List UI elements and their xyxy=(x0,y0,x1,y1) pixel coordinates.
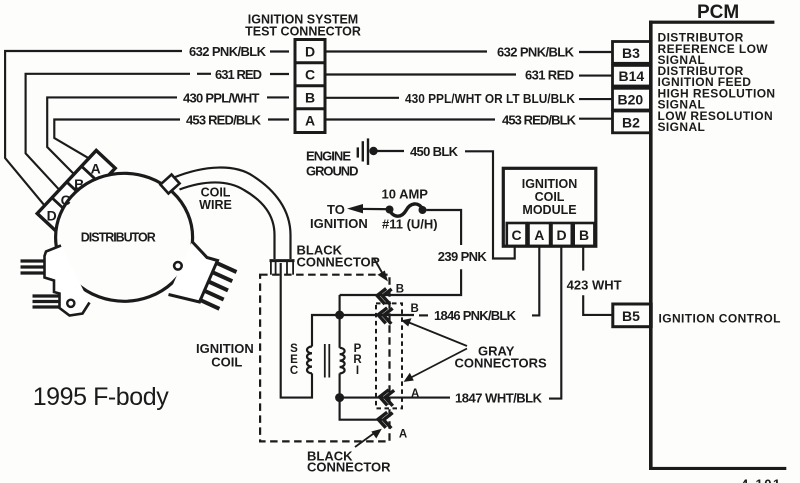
svg-text:B14: B14 xyxy=(619,68,645,84)
test connector title xyxy=(245,13,361,39)
PCM pin B14 xyxy=(613,65,651,86)
PCM pin B2 xyxy=(613,111,651,133)
gray connectors label xyxy=(455,344,548,371)
coil stub to black connector A xyxy=(340,398,382,420)
svg-text:A: A xyxy=(534,227,544,243)
wire dash row C xyxy=(270,73,289,75)
svg-text:B: B xyxy=(579,227,589,243)
svg-text:MODULE: MODULE xyxy=(522,203,576,217)
coil wire label xyxy=(199,186,232,213)
svg-text:631 RED: 631 RED xyxy=(215,67,262,82)
wire module D to 1847 xyxy=(549,246,561,398)
svg-text:IGNITION CONTROL: IGNITION CONTROL xyxy=(659,312,781,326)
wire dash 1846 xyxy=(419,314,428,316)
coil wire inner curve xyxy=(180,182,275,259)
chevron black connector A xyxy=(377,411,392,428)
wire 631 to B14 xyxy=(579,75,613,77)
svg-text:COIL: COIL xyxy=(211,355,242,370)
svg-text:450 BLK: 450 BLK xyxy=(410,144,459,159)
node junction bottom xyxy=(335,393,344,402)
left flange bolt hole xyxy=(67,300,74,307)
svg-text:ENGINE: ENGINE xyxy=(306,149,351,164)
distributor right bolt hole xyxy=(174,262,182,270)
wire 239 PNK lower xyxy=(340,269,462,295)
gray connectors arrow lower xyxy=(404,349,467,382)
label PRI xyxy=(353,343,362,377)
svg-text:B3: B3 xyxy=(622,45,640,61)
svg-text:A: A xyxy=(305,113,315,129)
label TO IGNITION xyxy=(310,202,368,231)
svg-text:B: B xyxy=(396,284,404,296)
engine ground symbol xyxy=(358,138,378,165)
chevron gray connector A xyxy=(379,389,394,406)
wire dash row D xyxy=(270,50,289,52)
svg-text:SIGNAL: SIGNAL xyxy=(658,120,706,134)
svg-text:430 PPL/WHT OR LT BLU/BLK: 430 PPL/WHT OR LT BLU/BLK xyxy=(405,91,576,106)
wire 430 left xyxy=(47,97,177,174)
svg-text:#11 (U/H): #11 (U/H) xyxy=(382,217,438,232)
ignition coil module box xyxy=(503,168,596,246)
svg-text:453 RED/BLK: 453 RED/BLK xyxy=(502,113,577,128)
wire module A to 1846 xyxy=(532,246,539,315)
wire dash row C pre-label xyxy=(197,73,211,75)
wire module B to B5 xyxy=(583,295,613,315)
distributor left flange xyxy=(45,246,90,316)
svg-text:632 PNK/BLK: 632 PNK/BLK xyxy=(497,45,575,60)
svg-text:A: A xyxy=(399,429,407,441)
gray connectors arrow upper xyxy=(401,318,467,346)
wire dash row B xyxy=(267,96,289,98)
wire 239 PNK upper xyxy=(427,210,462,245)
wire PRI bottom to node xyxy=(339,373,341,397)
svg-text:TO: TO xyxy=(327,202,345,217)
wire 450 BLK to module pin C xyxy=(465,151,515,258)
svg-text:632 PNK/BLK: 632 PNK/BLK xyxy=(189,44,267,59)
svg-text:1847 WHT/BLK: 1847 WHT/BLK xyxy=(455,391,543,406)
chevron gray connector B xyxy=(377,307,392,324)
gray connectors dashed box xyxy=(376,303,402,408)
distributor connector strip DCBA xyxy=(37,150,115,231)
wire SEC top to node xyxy=(312,315,340,347)
PCM pin B20 xyxy=(613,88,651,110)
svg-text:1846 PNK/BLK: 1846 PNK/BLK xyxy=(434,308,517,323)
wire 450 BLK xyxy=(377,150,404,152)
svg-text:C: C xyxy=(61,192,71,208)
wire 632 right xyxy=(325,50,487,52)
black connector top label xyxy=(297,243,381,270)
distributor right comb xyxy=(169,242,218,303)
svg-text:10 AMP: 10 AMP xyxy=(382,187,429,202)
wire node to PRI top xyxy=(339,315,341,348)
right comb teeth xyxy=(199,263,237,309)
svg-text:239 PNK: 239 PNK xyxy=(438,249,488,264)
svg-text:A: A xyxy=(91,160,101,176)
module pin D xyxy=(552,223,572,246)
svg-text:B: B xyxy=(74,176,84,192)
svg-text:I: I xyxy=(356,365,359,377)
svg-text:423 WHT: 423 WHT xyxy=(567,278,622,293)
to ignition arrow xyxy=(347,204,389,213)
distributor pin letters xyxy=(47,160,101,223)
wire 1847 WHT/BLK xyxy=(340,397,450,399)
svg-text:D: D xyxy=(557,227,567,243)
svg-text:CONNECTOR: CONNECTOR xyxy=(297,255,381,270)
svg-text:1995 F-body: 1995 F-body xyxy=(33,383,170,411)
svg-text:4-101: 4-101 xyxy=(741,477,782,483)
svg-text:C: C xyxy=(290,365,298,377)
svg-text:D: D xyxy=(305,44,315,60)
svg-text:C: C xyxy=(512,227,522,243)
wire 631 right xyxy=(325,73,516,75)
svg-text:PCM: PCM xyxy=(697,2,739,23)
wire 632 left xyxy=(5,51,182,206)
wire 430 to B20 xyxy=(579,98,613,100)
wire 453 left xyxy=(54,120,180,159)
svg-text:WIRE: WIRE xyxy=(199,198,232,212)
black connector bottom arrow xyxy=(355,429,382,447)
wire module B upper xyxy=(582,246,584,270)
ignition coil label xyxy=(196,341,254,370)
coil tower connector xyxy=(270,261,295,275)
svg-text:DISTRIBUTOR: DISTRIBUTOR xyxy=(81,231,156,245)
coil secondary feed wire xyxy=(281,263,312,398)
secondary winding SEC xyxy=(307,347,312,374)
label SEC xyxy=(290,343,298,377)
wire 632 to B3 xyxy=(579,51,613,53)
svg-text:IGNITION: IGNITION xyxy=(310,216,368,231)
wire 453 right xyxy=(325,118,495,120)
svg-text:C: C xyxy=(305,67,315,83)
svg-text:CONNECTOR: CONNECTOR xyxy=(307,460,391,475)
svg-text:430 PPL/WHT: 430 PPL/WHT xyxy=(183,90,260,105)
svg-text:TEST CONNECTOR: TEST CONNECTOR xyxy=(245,25,361,39)
node junction top xyxy=(335,311,344,320)
wire dash row A xyxy=(268,118,289,120)
transformer core xyxy=(325,344,330,378)
black connector top arrow xyxy=(374,259,388,282)
wire riser to coil node xyxy=(339,295,341,315)
svg-text:B5: B5 xyxy=(622,308,640,324)
wire 453 to B2 xyxy=(579,118,613,120)
svg-text:B: B xyxy=(305,90,315,106)
chevron black connector B xyxy=(376,288,391,305)
svg-text:B20: B20 xyxy=(618,92,644,108)
PCM pin B3 xyxy=(613,42,651,64)
black connector bottom label xyxy=(307,449,391,475)
module pin A xyxy=(529,223,551,246)
module pin B xyxy=(574,223,595,246)
svg-text:A: A xyxy=(411,388,419,400)
svg-text:IGNITION: IGNITION xyxy=(522,177,578,191)
svg-text:453 RED/BLK: 453 RED/BLK xyxy=(186,113,262,128)
ignition coil dashed box xyxy=(260,275,389,442)
coil wire tab xyxy=(160,175,179,194)
primary winding PRI xyxy=(340,348,345,374)
PCM box outline xyxy=(649,21,786,470)
PCM signal labels xyxy=(658,30,776,134)
svg-text:631 RED: 631 RED xyxy=(525,68,574,83)
left comb lower teeth xyxy=(33,296,60,307)
svg-text:COIL: COIL xyxy=(535,190,565,204)
svg-text:CONNECTORS: CONNECTORS xyxy=(455,356,548,371)
left comb upper teeth xyxy=(21,261,45,273)
fuse 10A symbol xyxy=(386,204,427,216)
svg-text:B: B xyxy=(411,303,419,315)
distributor body xyxy=(56,173,193,301)
engine ground label xyxy=(306,149,359,179)
coil wire outer curve xyxy=(174,168,291,259)
wire 430 right xyxy=(325,97,399,99)
wire 631 left xyxy=(26,74,190,190)
wire 1846 PNK/BLK xyxy=(340,314,414,316)
module pin C xyxy=(507,223,527,246)
svg-text:GROUND: GROUND xyxy=(306,164,359,179)
PCM pin B5 xyxy=(613,304,651,327)
ignition system test connector xyxy=(295,40,325,133)
svg-text:D: D xyxy=(47,207,57,223)
svg-text:B2: B2 xyxy=(622,115,640,131)
